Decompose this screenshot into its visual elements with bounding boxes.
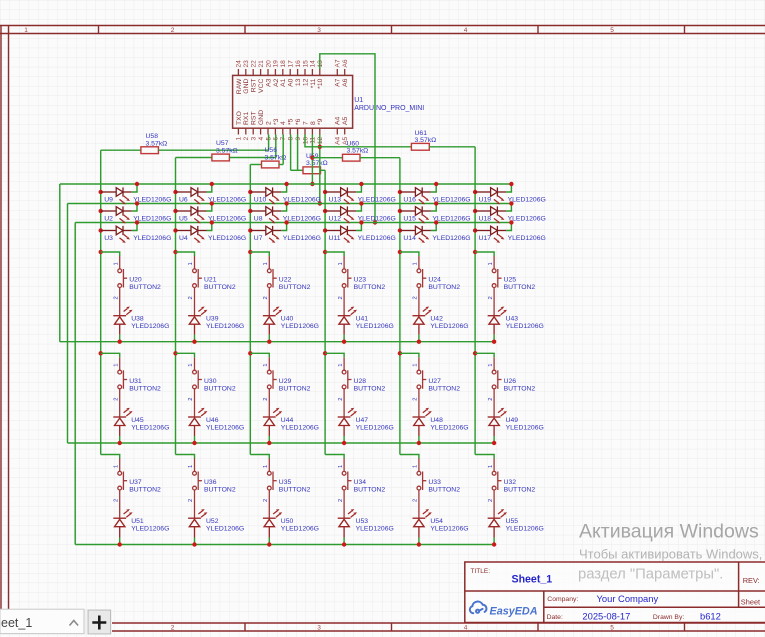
svg-text:2: 2 [338,499,344,502]
wire U40 cathode to bus [268,335,270,342]
junction U11 riser [359,220,363,224]
svg-text:RST: RST [251,111,258,125]
junction U17 riser [509,220,513,224]
junction U49 [492,441,496,445]
svg-text:1: 1 [263,364,269,367]
LED U46 YLED1206G [188,408,207,436]
wire U59 left [291,169,303,171]
svg-text:22: 22 [251,60,258,68]
svg-text:2: 2 [413,499,419,502]
svg-text:TITLE:: TITLE: [471,568,491,575]
svg-text:3: 3 [317,625,321,632]
wire U11 cathode riser [356,223,361,231]
resistor U60 3.57kΩ [343,154,361,161]
svg-text:U43: U43 [506,316,519,323]
svg-text:U3: U3 [104,235,113,242]
junction bus2 section B [173,351,177,355]
junction U19 riser [509,182,513,186]
svg-text:U51: U51 [131,518,144,525]
svg-text:ARDUINO_PRO_MINI: ARDUINO_PRO_MINI [354,105,424,112]
wire pin *6 drop [297,135,299,171]
svg-text:BUTTON2: BUTTON2 [428,385,460,392]
svg-text:A6: A6 [342,59,349,67]
svg-text:A4: A4 [335,116,342,125]
junction U48 [417,441,421,445]
U1 top pin numbers [236,59,349,67]
svg-text:21: 21 [258,60,265,68]
wire column bus 6 [474,147,476,455]
svg-text:U44: U44 [281,417,294,424]
wire branch to U27 [400,353,419,357]
svg-text:BUTTON2: BUTTON2 [129,385,161,392]
svg-text:2: 2 [265,121,272,125]
svg-text:1: 1 [488,262,494,265]
svg-text:1: 1 [413,364,419,367]
svg-text:2: 2 [188,499,194,502]
svg-text:A6: A6 [342,78,349,87]
svg-text:U47: U47 [356,417,369,424]
svg-text:U55: U55 [506,518,519,525]
svg-text:A0: A0 [288,78,295,87]
svg-text:4: 4 [464,27,468,34]
LED U14 YLED1206G [398,226,431,243]
junction U40 [267,340,271,344]
button U29 BUTTON2 [267,357,276,417]
svg-text:BUTTON2: BUTTON2 [129,284,161,291]
LED U7 YLED1206G [248,226,281,243]
svg-text:BUTTON2: BUTTON2 [504,487,536,494]
svg-text:10: 10 [302,136,309,144]
junction bus6 section B [473,351,477,355]
wire U58 right to pin 2 [158,149,268,151]
svg-text:Sheet: Sheet [741,598,760,607]
wire U4 cathode riser [207,223,212,231]
wire left vertical 2 [67,204,69,444]
svg-text:BUTTON2: BUTTON2 [204,385,236,392]
junction U52 [192,542,196,546]
svg-text:U58: U58 [146,133,159,140]
svg-text:2: 2 [171,625,175,632]
svg-text:U50: U50 [281,518,294,525]
wire U5 cathode riser [207,204,212,212]
wire branch to U31 [101,353,120,357]
junction U9 riser [135,182,139,186]
svg-text:U27: U27 [428,378,441,385]
svg-text:U13: U13 [329,197,342,204]
svg-text:2: 2 [188,398,194,401]
junction U15 riser [434,201,438,205]
svg-text:U52: U52 [206,518,219,525]
junction U39 [192,340,196,344]
svg-text:U21: U21 [204,277,217,284]
svg-text:U8: U8 [254,216,263,223]
wire branch to U28 [325,353,344,357]
LED U6 YLED1206G [173,187,206,204]
svg-text:Drawn By:: Drawn By: [653,614,684,621]
svg-text:BUTTON2: BUTTON2 [354,284,386,291]
junction U5 riser [210,201,214,205]
svg-text:BUTTON2: BUTTON2 [129,487,161,494]
wire left vertical 1 [59,184,61,342]
LED U2 YLED1206G [99,206,132,223]
svg-text:U26: U26 [504,378,517,385]
U1 bottom pin numbers [236,136,349,144]
svg-text:YLED1206G: YLED1206G [206,526,244,533]
svg-text:YLED1206G: YLED1206G [131,526,169,533]
junction bus2 section A [173,250,177,254]
sheet tab bar [0,609,112,634]
wire pin *5 drop to U59 [290,135,292,171]
LED U13 YLED1206G [323,187,356,204]
svg-text:2025-08-17: 2025-08-17 [582,611,630,622]
wire branch to U30 [176,353,195,357]
svg-text:BUTTON2: BUTTON2 [428,487,460,494]
button U26 BUTTON2 [492,357,501,417]
svg-text:YLED1206G: YLED1206G [430,424,468,431]
junction U6 riser [210,182,214,186]
wire U15 cathode riser [431,204,436,212]
svg-text:3.57kΩ: 3.57kΩ [306,160,328,167]
svg-text:3.57kΩ: 3.57kΩ [216,147,238,154]
LED U11 YLED1206G [323,226,356,243]
junction U44 [267,441,271,445]
junction U53 [342,542,346,546]
wire U56 right to pin 4 [279,164,283,166]
junction U41 [342,340,346,344]
wire pin 8 drop to row1 bus [311,135,313,185]
junction U50 [267,542,271,546]
wire U10 cathode riser [281,184,286,192]
junction U43 [492,340,496,344]
LED U12 YLED1206G [323,206,356,223]
wire U50 cathode to bus [268,538,270,545]
wire U52 cathode to bus [194,538,196,545]
resistor U57 3.57kΩ [212,154,230,161]
svg-text:*10: *10 [317,78,324,88]
junction bus6 section A [473,250,477,254]
junction bus5 section B [398,351,402,355]
svg-text:2: 2 [188,296,194,299]
svg-text:A3: A3 [265,78,272,87]
wire U54 cathode to bus [418,538,420,545]
svg-text:U11: U11 [329,235,341,242]
svg-text:U6: U6 [179,197,188,204]
svg-text:4: 4 [280,121,287,125]
resistor U59 3.57kΩ [303,167,321,174]
svg-text:A7: A7 [335,78,342,87]
svg-text:RST: RST [251,79,258,93]
svg-text:Чтобы активировать Windows, пе: Чтобы активировать Windows, перейд [579,547,765,562]
button U25 BUTTON2 [492,256,501,316]
wire branch to U20 [101,252,120,256]
svg-text:1: 1 [338,465,344,468]
svg-text:BUTTON2: BUTTON2 [354,385,386,392]
button U32 BUTTON2 [492,459,501,519]
svg-text:U61: U61 [415,130,428,137]
wire column bus 3 [249,165,251,455]
LED U17 YLED1206G [473,226,506,243]
svg-text:BUTTON2: BUTTON2 [504,385,536,392]
svg-text:18: 18 [280,60,287,68]
svg-text:2: 2 [413,398,419,401]
svg-text:9: 9 [295,136,302,140]
svg-text:U23: U23 [354,277,367,284]
svg-text:*6: *6 [295,118,302,125]
LED U50 YLED1206G [263,509,282,538]
junction U8 riser [284,201,288,205]
svg-text:5: 5 [610,625,614,632]
button U27 BUTTON2 [417,357,426,417]
LED U51 YLED1206G [113,509,132,538]
wire U57 left to bus2 top [176,157,212,159]
junction pin8 / U60 [310,156,314,160]
wire pin *10 over IC to row3 bus [320,54,375,223]
title block frame [465,562,765,623]
svg-text:U7: U7 [254,235,263,242]
svg-text:7: 7 [302,121,309,125]
svg-text:BUTTON2: BUTTON2 [354,487,386,494]
wire U58 left to bus1 top [101,149,141,151]
LED U43 YLED1206G [488,307,507,335]
wire branch to U26 [475,353,494,357]
junction pin*9 / U61 wire [318,145,322,149]
svg-text:YLED1206G: YLED1206G [206,323,244,330]
svg-text:1: 1 [263,262,269,265]
junction bus5 section A [398,250,402,254]
svg-text:3.57kΩ: 3.57kΩ [146,140,168,147]
junction U42 [417,340,421,344]
svg-text:23: 23 [243,60,250,68]
wire U48 cathode to bus [418,436,420,443]
svg-text:YLED1206G: YLED1206G [281,526,319,533]
button U35 BUTTON2 [267,459,276,519]
svg-text:Company:: Company: [547,596,578,603]
svg-text:U20: U20 [129,277,142,284]
LED U40 YLED1206G [263,307,282,335]
svg-text:YLED1206G: YLED1206G [356,424,394,431]
svg-text:BUTTON2: BUTTON2 [279,385,311,392]
svg-text:YLED1206G: YLED1206G [208,235,246,242]
svg-text:Your Company: Your Company [597,593,659,604]
svg-text:1: 1 [188,262,194,265]
svg-text:BUTTON2: BUTTON2 [279,284,311,291]
svg-text:A7: A7 [335,59,342,67]
svg-text:U5: U5 [179,216,188,223]
LED U54 YLED1206G [413,509,432,538]
resistor U61 3.57kΩ [411,143,429,150]
svg-text:YLED1206G: YLED1206G [506,323,544,330]
wire branch to U35 [250,455,269,459]
LED U42 YLED1206G [413,307,432,335]
button U37 BUTTON2 [118,459,127,519]
wire branch to U22 [250,252,269,256]
svg-text:VCC: VCC [258,79,265,93]
junction bus3 section A [248,250,252,254]
svg-text:2: 2 [113,296,119,299]
svg-text:GND: GND [258,110,265,125]
LED U10 YLED1206G [248,187,281,204]
svg-text:YLED1206G: YLED1206G [358,235,396,242]
svg-text:U15: U15 [403,216,416,223]
wire pin 4 drop [282,135,284,165]
wire U60 left to pin 8 [312,157,342,159]
svg-text:16: 16 [295,60,302,68]
wire U9 cathode riser [132,184,137,192]
svg-text:U34: U34 [354,479,367,486]
svg-text:U10: U10 [254,197,267,204]
svg-text:BUTTON2: BUTTON2 [204,284,236,291]
svg-text:12: 12 [317,136,324,144]
svg-text:YLED1206G: YLED1206G [430,526,468,533]
svg-text:EasyEDA: EasyEDA [490,606,538,618]
LED U47 YLED1206G [338,408,357,436]
wire U16 cathode riser [431,184,436,192]
svg-text:U53: U53 [356,518,369,525]
button U34 BUTTON2 [342,459,351,519]
wire column bus 4 [324,170,326,454]
svg-text:A2: A2 [273,78,280,87]
svg-text:11: 11 [310,136,317,143]
wire branch to U29 [250,353,269,357]
button U33 BUTTON2 [417,459,426,519]
svg-text:U12: U12 [329,216,342,223]
wire branch to U34 [325,455,344,459]
junction U12 riser [359,201,363,205]
junction U3 riser [135,220,139,224]
svg-text:YLED1206G: YLED1206G [506,526,544,533]
svg-text:U17: U17 [479,235,492,242]
svg-text:YLED1206G: YLED1206G [508,235,546,242]
svg-text:U29: U29 [279,378,292,385]
svg-text:2: 2 [263,296,269,299]
LED U16 YLED1206G [398,187,431,204]
wire column bus 2 [175,158,177,455]
svg-text:12: 12 [302,78,309,86]
wire branch to U32 [475,455,494,459]
wire U61 left to pin 7 [305,135,411,147]
svg-text:3: 3 [251,136,258,140]
wire U42 cathode to bus [418,335,420,342]
svg-text:YLED1206G: YLED1206G [356,323,394,330]
svg-text:U36: U36 [204,479,217,486]
svg-text:13: 13 [317,60,324,68]
wire section C bottom bus [75,544,494,546]
svg-text:BUTTON2: BUTTON2 [428,284,460,291]
wire U41 cathode to bus [343,335,345,342]
LED U38 YLED1206G [113,307,132,335]
svg-text:*3: *3 [273,118,280,125]
junction U38 [118,340,122,344]
svg-text:19: 19 [273,60,280,68]
svg-text:BUTTON2: BUTTON2 [279,487,311,494]
svg-text:17: 17 [288,60,295,68]
junction bus3 section B [248,351,252,355]
svg-text:U39: U39 [206,316,219,323]
button U24 BUTTON2 [417,256,426,316]
svg-text:U25: U25 [504,277,517,284]
svg-text:раздел "Параметры".: раздел "Параметры". [578,567,723,583]
junction pin*9 / row2 bus [318,201,322,205]
svg-text:1: 1 [263,465,269,468]
button U23 BUTTON2 [342,256,351,316]
LED U3 YLED1206G [99,226,132,243]
wire U56 left to bus3 top [250,164,261,166]
svg-text:YLED1206G: YLED1206G [432,235,470,242]
svg-text:eet_1: eet_1 [1,616,32,630]
IC U1 ARDUINO_PRO_MINI body [233,75,353,128]
svg-text:U38: U38 [131,316,144,323]
junction U13 riser [359,182,363,186]
svg-text:U45: U45 [131,417,144,424]
wire branch to U37 [101,455,120,459]
junction U45 [118,441,122,445]
wire U44 cathode to bus [268,436,270,443]
button U22 BUTTON2 [267,256,276,316]
svg-text:3.57kΩ: 3.57kΩ [347,148,369,155]
svg-text:A4: A4 [335,136,342,144]
LED U8 YLED1206G [248,206,281,223]
EasyEDA logo [470,602,538,618]
wire branch to U24 [400,252,419,256]
LED U48 YLED1206G [413,408,432,436]
button U21 BUTTON2 [193,256,202,316]
svg-text:2: 2 [413,296,419,299]
svg-text:4: 4 [258,136,265,140]
svg-text:U16: U16 [403,197,416,204]
LED U19 YLED1206G [473,187,506,204]
junction pin*10 wire / row3 bus [373,220,377,224]
wire U43 cathode to bus [493,335,495,342]
svg-text:GND: GND [243,79,250,94]
LED U53 YLED1206G [338,509,357,538]
svg-text:U57: U57 [216,140,229,147]
svg-text:U24: U24 [428,277,441,284]
svg-text:Sheet_1: Sheet_1 [512,573,553,585]
svg-text:*11: *11 [310,78,317,88]
junction bus1 section B [99,351,103,355]
wire U57 right to pin *3 [229,157,275,159]
svg-text:*9: *9 [317,118,324,125]
junction U47 [342,441,346,445]
svg-text:U4: U4 [179,235,188,242]
junction pin8 / row1 bus [310,182,314,186]
LED U18 YLED1206G [473,206,506,223]
svg-text:U28: U28 [354,378,367,385]
wire LED row1 bus [60,183,512,185]
U1 pin stubs [238,69,344,135]
LED U49 YLED1206G [488,408,507,436]
svg-text:U41: U41 [356,316,369,323]
junction U18 riser [509,201,513,205]
svg-text:U18: U18 [479,216,492,223]
svg-text:A1: A1 [280,78,287,87]
wire U59 right to bus4 top [321,169,326,171]
wire LED row3 bus [75,222,511,224]
junction U10 riser [284,182,288,186]
svg-text:2: 2 [113,398,119,401]
wire column bus 1 [100,150,102,454]
svg-text:1: 1 [113,364,119,367]
svg-text:BUTTON2: BUTTON2 [504,284,536,291]
junction bus4 section A [323,250,327,254]
wire pin *3 drop [275,135,277,158]
wire pin 2 drop [268,135,270,151]
svg-text:U1: U1 [354,97,363,104]
svg-text:4: 4 [464,625,468,632]
junction U4 riser [210,220,214,224]
wire branch to U23 [325,252,344,256]
wire U53 cathode to bus [343,538,345,545]
